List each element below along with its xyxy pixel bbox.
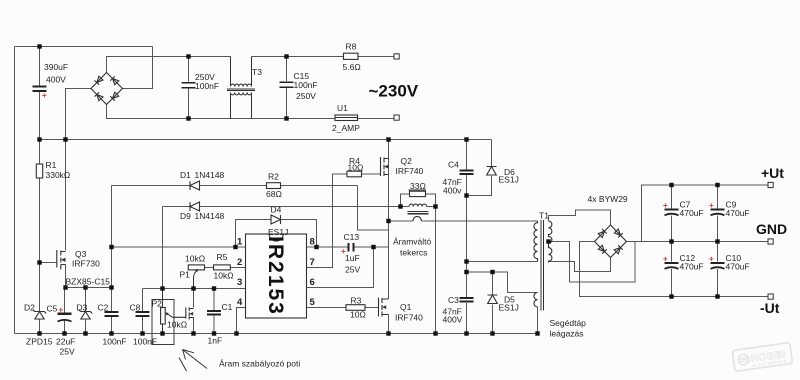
svg-text:P2: P2 [152,299,163,309]
svg-text:10kΩ: 10kΩ [214,271,234,281]
label D1 1N4148 [180,170,225,180]
wire: VCC to IC pin 1 y=247 [112,246,246,248]
label Aramvalto tekercs [393,237,432,258]
label C5 22uF 25V [47,304,76,357]
svg-text:+: + [663,255,668,264]
svg-text:470uF: 470uF [680,208,704,218]
svg-text:400V: 400V [443,315,463,325]
junction dots: ground rail [37,331,539,335]
svg-text:250V: 250V [296,91,316,101]
svg-text:+: + [42,91,47,100]
wire: Q3 drain to bus and source to VCC rail [65,140,67,288]
label D4 ES1J [268,205,288,238]
wire: T1 center tap to GND rail [549,242,636,283]
wire: Q1 source to ground [388,315,390,334]
transistor Q2 IRF740 [381,157,389,176]
resistor R2 68ohm [267,183,281,189]
diode D5 ES1J [488,295,498,304]
svg-text:5.6Ω: 5.6Ω [343,62,361,72]
wire: bridge left corner to bus [66,89,92,140]
wire: R1 column / Q3 gate / D2 column [40,140,57,334]
wire: C14 cap column [188,57,190,119]
wire: C12 column [671,242,673,297]
junction dots: snubber node [464,193,494,274]
wire: pin5 line with R3 to Q1 gate [307,307,379,309]
svg-text:T3: T3 [252,67,262,77]
svg-text:3: 3 [237,277,242,288]
wire: D6 branch [467,140,492,196]
svg-text:R8: R8 [346,42,357,52]
terminal: AC line [394,54,399,59]
svg-text:33Ω: 33Ω [410,181,426,191]
capacitor C12 470uF (plates) [665,263,679,269]
svg-text:1N4148: 1N4148 [195,170,225,180]
svg-text:7: 7 [310,257,315,268]
junction dots: top section [37,44,288,120]
resistor R1 330k [36,164,42,178]
terminal: +Ut [768,182,773,187]
label P2 10k [152,299,188,330]
junction dots: output rails [669,183,719,299]
svg-text:IRF740: IRF740 [395,313,423,323]
svg-text:U1: U1 [337,103,348,113]
label C12 470uF [663,253,704,272]
svg-text:2: 2 [237,257,242,268]
zener diode D3 [79,310,92,320]
label R8 5.6ohm [343,42,361,73]
svg-text:IRF730: IRF730 [72,259,100,269]
junction dots: T1 center tap [546,239,550,243]
wire: +310V bus y=139.5 [40,139,492,141]
label C1 1nF [208,302,233,346]
svg-text:6: 6 [310,277,315,288]
value label 390uF 400V [42,62,68,100]
svg-text:330kΩ: 330kΩ [46,170,71,180]
capacitor C9 470uF (plates) [711,210,725,216]
bridge rectifier B1 (input diamond) [91,73,123,105]
svg-text:T1: T1 [539,211,549,221]
svg-text:ZPD15: ZPD15 [26,337,53,347]
diode D1 1N4148 [190,181,200,190]
capacitor C8 100nF (plates) [136,312,150,316]
wire: node to T1 primary bottom y=261.8 [467,261,538,263]
svg-text:10kΩ: 10kΩ [167,320,187,330]
label P1 10k [180,254,206,280]
terminal: AC neutral [394,115,399,120]
svg-text:10Ω: 10Ω [348,163,364,173]
wire: D3 column [85,288,87,334]
transistor Q1 IRF740 [379,298,389,317]
svg-text:BZX85-C15: BZX85-C15 [66,277,111,287]
label C15 100nF 250V [294,71,318,101]
svg-text:leágazás: leágazás [550,329,584,339]
transformer T3 common-mode choke [227,57,255,119]
svg-text:R5: R5 [217,252,228,262]
potentiometer P2 10k (box, element, wiper) [152,289,174,345]
label D6 ES1J [499,167,519,185]
svg-text:100nF: 100nF [133,337,157,347]
svg-text:400v: 400v [443,186,462,196]
svg-text:P1: P1 [180,270,191,280]
capacitor C1 1nF (plates) [207,311,221,314]
resistor R8 5.6ohm [344,53,359,59]
capacitor C14 100nF 250V (plates) [182,83,196,88]
label C3 47nF 400V [443,295,463,325]
svg-text:10kΩ: 10kΩ [185,254,205,264]
wire: bridge right corner up to top wire [123,47,153,89]
svg-text:~230V: ~230V [369,82,419,101]
svg-text:+: + [59,306,64,315]
wire: D4 bootstrap loop pin1 to pin8 [236,220,317,248]
svg-text:+Ut: +Ut [761,165,784,181]
svg-text:D9: D9 [180,211,191,221]
watermark HOBBI elektronika [732,343,792,372]
svg-text:470uF: 470uF [726,262,750,272]
capacitor C15 100nF 250V (plates) [280,82,294,87]
svg-text:Áram szabályozó poti: Áram szabályozó poti [219,359,300,369]
svg-text:Áramváltó: Áramváltó [393,237,432,247]
svg-text:22uF: 22uF [56,337,75,347]
label Q3 IRF730 [72,249,100,269]
label U1 2_AMP [332,103,360,133]
wire: pin4 to ground [237,308,246,334]
svg-text:Q2: Q2 [401,156,413,166]
svg-text:25V: 25V [345,265,360,275]
wire: C8 column [142,289,144,334]
svg-text:2_AMP: 2_AMP [332,123,360,133]
svg-text:1: 1 [237,237,243,248]
label D2 ZPD15 [24,303,53,347]
label C8 100nF [130,303,158,347]
svg-text:C1: C1 [222,302,233,312]
junction dots: VCC and control nodes [37,245,375,291]
capacitor C4 47nF 400v (plates) [460,170,474,174]
wire: C15 cap column [286,57,288,119]
svg-text:C4: C4 [448,160,459,170]
svg-text:ES1J: ES1J [268,227,288,237]
label C13 1uF 25V [341,232,360,275]
label C2 100nF [98,303,127,347]
svg-text:100nF: 100nF [294,80,318,90]
wire: C7 column [671,185,673,242]
svg-text:390uF: 390uF [44,62,68,72]
svg-text:ES1J: ES1J [499,303,519,313]
svg-text:400V: 400V [46,75,66,85]
diode D4 ES1J [271,215,281,224]
potentiometer P1 10k [188,265,204,289]
svg-text:C8: C8 [130,303,141,313]
svg-text:D3: D3 [77,303,88,313]
terminal: GND [768,239,773,244]
svg-text:tekercs: tekercs [400,248,427,258]
svg-text:+: + [709,201,714,210]
label D9 1N4148 [180,211,225,221]
fuse U1 2_AMP [335,115,358,121]
capacitor C7 470uF (plates) [665,210,679,216]
wire: T1 secondary bottom to bridge bottom vertex [549,258,611,272]
svg-text:C2: C2 [98,303,109,313]
terminal: -Ut [768,294,773,299]
wire: C9 column [717,185,719,242]
label D5 ES1J [499,295,519,313]
svg-text:1uF: 1uF [345,253,360,263]
wire: bridge right vertex to +Ut rail [627,185,769,242]
wire: GND rail to terminal [635,241,768,243]
label Q1 IRF740 [395,302,423,323]
wire: CT primary single-turn to T1 primary top [389,220,538,222]
svg-text:+: + [709,255,714,264]
wire: R2 drop to half-bridge midpoint [358,186,389,231]
svg-text:100nF: 100nF [195,81,219,91]
svg-text:470uF: 470uF [680,262,704,272]
current transformer (Aramvalto tekercs) [408,204,429,221]
wire: pin8 VB line with C13 to midpoint [307,246,389,248]
svg-text:4x BYW29: 4x BYW29 [588,194,628,204]
svg-text:C13: C13 [344,232,360,242]
wire: C10 column [717,242,719,297]
wire: C1 column [213,289,215,334]
wire: C4 column from bus [466,140,468,334]
svg-text:+: + [663,201,668,210]
svg-text:5: 5 [310,297,316,308]
wire: half-bridge midpoint column [388,159,390,300]
wire: CT(pin3) rail y=288.3 [143,288,246,290]
svg-text:R3: R3 [351,296,362,306]
capacitor C10 470uF (plates) [711,263,725,269]
wire: D5 branch [492,272,494,334]
svg-text:8: 8 [310,237,315,248]
svg-text:D2: D2 [24,303,35,313]
svg-text:100nF: 100nF [103,337,127,347]
svg-text:4: 4 [237,297,243,308]
svg-text:1N4148: 1N4148 [195,211,225,221]
svg-text:470uF: 470uF [726,208,750,218]
svg-text:GND: GND [756,221,787,237]
label R2 68ohm [266,172,282,200]
transformer T1 [534,220,552,310]
wire: VCC rail y=287.5 [66,287,112,289]
wire: D1-R2 line y=185.5 [112,185,358,187]
svg-text:1nF: 1nF [208,336,223,346]
junction dots: +310V bus [37,137,468,141]
svg-text:Segédtáp: Segédtáp [550,318,587,328]
resistor R4 10ohm [347,171,362,177]
svg-text:ES1J: ES1J [499,175,519,185]
svg-text:68Ω: 68Ω [266,189,282,199]
capacitor C13 1uF 25V (plates) [349,243,354,251]
wire: T1 aux winding bottom to ground [537,307,539,334]
diode D6 ES1J [487,167,497,176]
svg-text:-Ut: -Ut [760,300,780,316]
wire: 390uF capacitor column [39,47,41,140]
label R5 10k [214,252,234,281]
wire: pin7 riser to R4 [307,174,381,268]
label Segedtap leagazas [550,318,587,339]
wire: bridge left vertex to -Ut rail [580,242,769,297]
capacitor C2 100nF (plates) [105,312,119,316]
value label 250V 100nF (C14) [195,72,219,91]
label R3 10ohm [350,296,366,320]
wire: CT coil line y=206.5 [401,206,436,208]
svg-text:Q1: Q1 [400,302,412,312]
wire: ground rail y=333.5 [15,333,539,335]
label R4 10ohm [348,156,364,173]
wire: T1 secondary top to bridge top vertex [549,210,611,225]
wire: current-limit MOSFET drain and source [193,289,195,334]
resistor: 33ohm burden [410,191,426,196]
svg-text:D1: D1 [180,170,191,180]
svg-text:10Ω: 10Ω [350,310,366,320]
label R1 330k [46,160,71,180]
resistor R5 10k [214,265,231,270]
wire: pin6 VS riser [307,247,374,288]
wire: D9 line y=206.5 to current transformer [163,206,401,208]
wire: C2 / D1 / VCC column x=111.5 [111,186,113,334]
wire: node to D5 and aux winding top y=272 [467,272,538,293]
svg-text:C5: C5 [47,304,58,314]
annotation arrow: Aram szabalyozo poti [179,350,300,372]
wire: bottom AC line y=118 (bridge bottom to U1 fuse) [107,105,395,119]
zener diode D2 ZPD15 [33,310,46,320]
svg-text:Q3: Q3 [75,249,87,259]
label C7 470uF [663,200,704,219]
svg-text:R2: R2 [268,172,279,182]
diode D9 1N4148 [190,202,200,211]
label 33ohm (underlined) [409,181,427,191]
capacitor C5 22uF 25V (plates) [58,314,72,322]
wire: 33ohm and CT coil side legs [401,194,436,334]
IC U2 IR2153 [246,234,307,318]
wire: top AC loop / left frame down to ground [15,47,153,334]
wire: pin2 line with P1 and R5 [205,267,246,269]
svg-text:R1: R1 [46,160,57,170]
wire: D9 column down to CT-limit node and P2 [162,207,164,306]
svg-text:D4: D4 [271,205,282,215]
wire: top AC line y=56 (bridge top to T3 and R8) [107,57,395,73]
transistor Q3 IRF730 [57,250,66,270]
capacitor C3 47nF 400V (plates) [460,298,474,302]
rectifier bridge: 4x BYW29 output diamond [595,225,627,258]
label C9 470uF [709,200,750,219]
wire: Q2 drain to bus [388,140,390,159]
junction dots: CT and midpoint [386,204,437,223]
svg-text:IRF740: IRF740 [396,166,424,176]
wire: C5 column [64,288,66,334]
resistor R3 10ohm [346,305,365,311]
capacitor C16 390uF 400V (plates) [33,87,47,92]
svg-text:C3: C3 [448,295,459,305]
transistor: current-limit MOSFET at P2 [173,308,194,320]
label C4 47nF 400v [443,160,463,196]
svg-text:25V: 25V [60,347,75,357]
label Q2 IRF740 [396,156,424,176]
label C10 470uF [709,253,750,272]
svg-text:IR2153: IR2153 [264,236,287,316]
